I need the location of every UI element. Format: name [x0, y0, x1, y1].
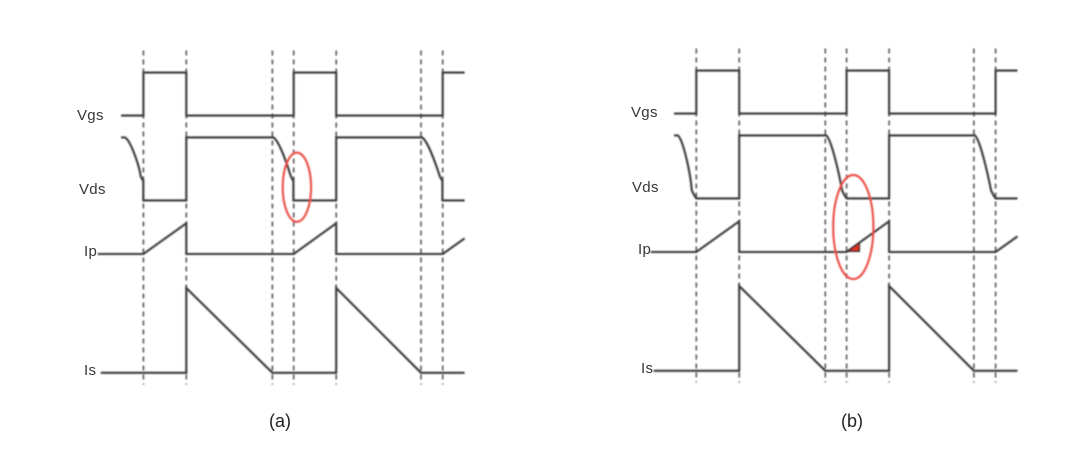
Vds waveform panel b: [674, 135, 1018, 198]
dashed timing line t0 panel b: [695, 49, 697, 383]
label Vds panel a: [79, 181, 106, 198]
label Is panel a: [84, 362, 96, 379]
Ip waveform panel a: [98, 223, 465, 254]
Vgs waveform panel a: [121, 73, 465, 116]
dashed timing line t3 panel a: [293, 51, 295, 385]
caption (a): [240, 411, 320, 432]
dashed timing line t2 panel a: [271, 51, 273, 385]
dashed timing line t6 panel b: [995, 49, 997, 383]
dashed timing line t1 panel a: [185, 51, 187, 385]
label Ip panel a: [84, 243, 97, 260]
label Vds panel b: [632, 179, 659, 196]
dashed timing line t6 panel a: [442, 51, 444, 385]
label Ip panel b: [638, 241, 651, 258]
dashed timing line t0 panel a: [142, 51, 144, 385]
dashed timing line t1 panel b: [738, 49, 740, 383]
dashed timing line t4 panel a: [335, 51, 337, 385]
red highlight ellipse panel b: [833, 175, 873, 279]
dashed timing line t5 panel a: [420, 51, 422, 385]
dashed timing line t4 panel b: [888, 49, 890, 383]
Is waveform panel b: [654, 286, 1018, 371]
dashed timing line t3 panel b: [846, 49, 848, 383]
Ip waveform panel b: [651, 221, 1018, 252]
red hard-switching current step triangle panel b: [847, 243, 859, 251]
caption (b): [812, 411, 892, 432]
label Is panel b: [641, 360, 653, 377]
dashed timing line t5 panel b: [973, 49, 975, 383]
Vds waveform panel a: [121, 137, 465, 200]
red highlight ellipse panel a: [283, 153, 311, 222]
dashed timing line t2 panel b: [824, 49, 826, 383]
Vgs waveform panel b: [674, 71, 1018, 114]
Is waveform panel a: [101, 288, 465, 373]
label Vgs panel a: [77, 107, 104, 124]
label Vgs panel b: [631, 104, 658, 121]
